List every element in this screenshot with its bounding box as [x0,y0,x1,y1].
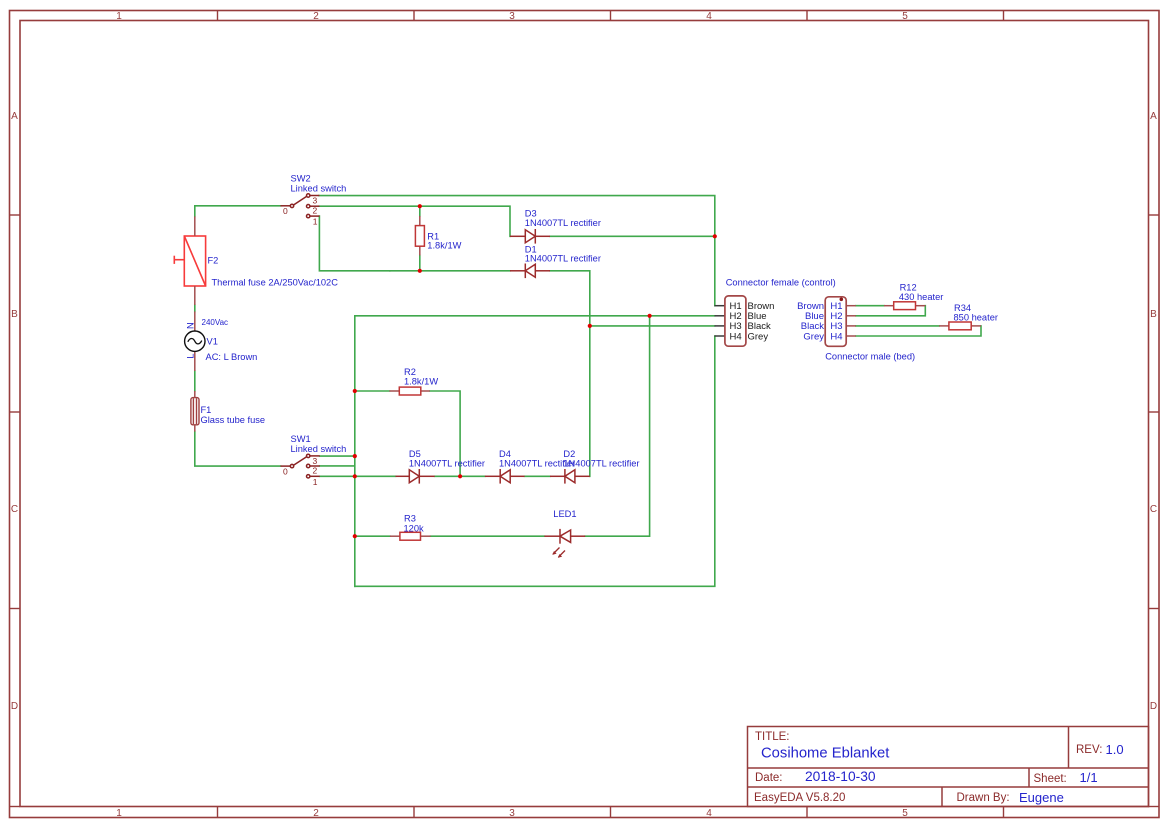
svg-text:N: N [186,322,196,329]
male wire colour names [797,301,824,342]
junction R1 bottom [418,269,422,273]
wire R3 to LED1 [431,535,545,537]
svg-text:Eugene: Eugene [1019,790,1064,805]
wire R2 left lead to rail [355,390,390,392]
wire R34 to male H4 [856,326,981,336]
F2 labels [208,256,339,288]
svg-text:3: 3 [509,11,515,22]
svg-text:TITLE:: TITLE: [755,731,790,743]
svg-text:1N4007TL rectifier: 1N4007TL rectifier [409,458,485,468]
svg-text:0: 0 [283,467,288,477]
svg-text:A: A [11,111,18,122]
wire SW2 pin1 down to R1 bottom row [319,216,389,271]
svg-text:D: D [11,701,18,712]
wire left vertical rail x355 [354,316,356,587]
svg-text:2: 2 [313,808,319,819]
svg-text:1N4007TL rectifier: 1N4007TL rectifier [563,458,639,468]
wire F1 bottom to SW1 common [195,432,281,467]
svg-text:SW1: SW1 [291,434,311,444]
svg-text:AC: L Brown: AC: L Brown [206,352,258,362]
bottom ruler numbers [116,808,908,819]
wire bottom return H4 [355,336,715,586]
svg-text:B: B [1150,309,1157,320]
R34 labels [954,303,998,323]
right ruler letters [1150,111,1157,712]
svg-text:REV:: REV: [1076,744,1102,756]
wire R12 to male H2 [856,306,926,316]
svg-text:2: 2 [313,466,318,476]
svg-text:5: 5 [902,11,908,22]
top ruler numbers [116,11,908,22]
switch SW2 [281,194,320,218]
wire R3 row from rail [355,535,390,537]
svg-text:R12: R12 [900,283,917,293]
male pin names [830,301,842,342]
LED LED1 [544,529,585,544]
svg-text:1N4007TL rectifier: 1N4007TL rectifier [525,218,601,228]
diode D5 [396,469,435,484]
D4 labels [499,449,575,468]
svg-text:A: A [1150,111,1157,122]
svg-text:B: B [11,309,18,320]
F1 labels [201,405,266,425]
thermal fuse F2 [174,236,205,286]
wire F2 bottom to V1 top [194,305,196,312]
junction H3 / D1-D2 vertical [588,324,592,328]
bottom ruler ticks [218,807,1004,818]
V1 labels [186,318,258,362]
svg-text:Drawn By:: Drawn By: [957,792,1010,804]
junction R2 / rail [353,389,357,393]
wire D4 to D2 [525,475,550,477]
wire D5 cathode to D4 anode [435,475,485,477]
svg-text:1: 1 [116,808,122,819]
svg-text:C: C [11,504,18,515]
wire male H1 to R12 [856,305,884,307]
svg-text:1.0: 1.0 [1106,742,1124,757]
D5 labels [409,449,485,468]
wire SW1 pin2 stub [320,465,354,467]
svg-text:1: 1 [313,217,318,227]
svg-text:Thermal fuse 2A/250Vac/102C: Thermal fuse 2A/250Vac/102C [212,278,339,288]
svg-text:R2: R2 [404,367,416,377]
wire D1 cathode right and down to D2 row [550,271,590,477]
switch SW1 [281,454,320,478]
svg-text:Date:: Date: [755,772,783,784]
svg-text:4: 4 [706,11,712,22]
connector female (control) J1 [715,296,746,346]
svg-text:1: 1 [313,477,318,487]
svg-text:V1: V1 [207,337,218,347]
F2 pins [194,216,196,305]
wire R1 top lead [419,206,421,216]
svg-text:0: 0 [283,206,288,216]
svg-text:120k: 120k [404,524,425,534]
junction R3 / rail [353,534,357,538]
diode D4 [485,469,525,484]
R12 labels [899,283,943,303]
SW1 labels [291,434,347,454]
wire LED1 to H2 vertical [585,316,649,536]
wire R1 bottom row to D1 anode [390,270,510,272]
svg-text:Connector female (control): Connector female (control) [726,277,836,287]
junction SW1 pin3 / rail [353,454,357,458]
resistor R34 [939,322,981,330]
svg-text:Sheet:: Sheet: [1034,773,1067,785]
F1 pins [194,391,196,432]
svg-text:240Vac: 240Vac [202,318,229,327]
svg-text:R3: R3 [404,514,416,524]
svg-text:LED1: LED1 [553,509,576,519]
resistor R3 [390,532,431,540]
SW2 labels [291,174,347,194]
junction SW1 pin1 / rail [353,474,357,478]
svg-text:3: 3 [313,456,318,466]
svg-text:H4: H4 [830,331,842,342]
svg-text:3: 3 [313,196,318,206]
svg-text:1.8k/1W: 1.8k/1W [427,240,461,250]
top ruler ticks [218,11,1004,21]
svg-text:2: 2 [313,205,318,215]
svg-text:850 heater: 850 heater [954,313,998,323]
svg-text:R34: R34 [954,303,971,313]
junction D3 out / H1 [713,234,717,238]
svg-text:2018-10-30: 2018-10-30 [805,769,876,784]
glass tube fuse F1 [191,398,199,425]
svg-text:H4: H4 [730,331,742,342]
left ruler letters [11,111,18,712]
wire R1 bottom lead [419,255,421,270]
R1 labels [427,231,461,250]
wire R2 right lead down to D5 output [430,391,460,476]
svg-text:4: 4 [706,808,712,819]
D3 labels [525,209,601,228]
JUNCTION DOTS [353,204,717,538]
svg-text:1: 1 [116,11,122,22]
wire SW1 pin3 to rail [320,455,355,457]
wire H2 row to left vertical [355,315,715,317]
title block frame [748,727,1149,807]
svg-text:3: 3 [509,808,515,819]
svg-text:1.8k/1W: 1.8k/1W [404,377,438,387]
left ruler ticks [10,215,21,609]
svg-text:2: 2 [313,11,319,22]
svg-text:F1: F1 [201,405,212,415]
female pin names [730,301,742,342]
svg-text:Linked switch: Linked switch [291,444,347,454]
resistor R12 [884,302,925,310]
LED1 arrows [552,548,565,558]
svg-text:Glass tube fuse: Glass tube fuse [201,415,266,425]
wire SW1 pin1 to D5 anode [320,475,396,477]
svg-text:1/1: 1/1 [1080,770,1098,785]
svg-text:SW2: SW2 [291,174,311,184]
svg-text:C: C [1150,504,1157,515]
wire left rail top to SW2 common [195,206,281,217]
connector male (bed) J2 [825,297,856,347]
svg-text:Linked switch: Linked switch [291,184,347,194]
svg-text:D: D [1150,701,1157,712]
wire top: SW2 pin3 to H1 vertical [319,196,715,306]
svg-text:EasyEDA V5.8.20: EasyEDA V5.8.20 [754,792,845,804]
D1 labels [525,244,601,263]
wire H3 row [590,325,715,327]
SW1 pin numbers [283,456,318,487]
svg-text:Grey: Grey [748,331,769,342]
svg-text:L: L [186,354,196,359]
diode D2 [550,469,590,484]
diode D1 [510,264,550,279]
svg-text:Grey: Grey [803,331,824,342]
junction H2 / LED vertical [648,314,652,318]
right ruler ticks [1149,215,1160,609]
wire D3 cathode to H1 vertical [550,235,715,237]
AC source V1 [185,312,205,372]
svg-text:5: 5 [902,808,908,819]
svg-text:Cosihome Eblanket: Cosihome Eblanket [761,746,889,762]
svg-text:F2: F2 [208,256,219,266]
resistor R2 [389,387,429,395]
R3 labels [404,514,425,534]
wire SW2 pin2 row to D3 anode [319,206,510,236]
wire male H3 to R34 [856,325,939,327]
SW2 pin numbers [283,196,318,227]
female wire colour names [748,301,775,342]
svg-text:430 heater: 430 heater [899,292,943,302]
frame corner closures [10,806,1160,808]
svg-text:1N4007TL rectifier: 1N4007TL rectifier [525,253,601,263]
R2 labels [404,367,438,387]
wire V1 bottom to F1 top [194,371,196,391]
diode D3 [510,229,550,244]
junction R1 top [418,204,422,208]
D2 labels [563,449,639,468]
junction D5 out / R2 [458,474,462,478]
svg-text:Connector male (bed): Connector male (bed) [825,352,915,362]
resistor R1 [415,216,424,255]
